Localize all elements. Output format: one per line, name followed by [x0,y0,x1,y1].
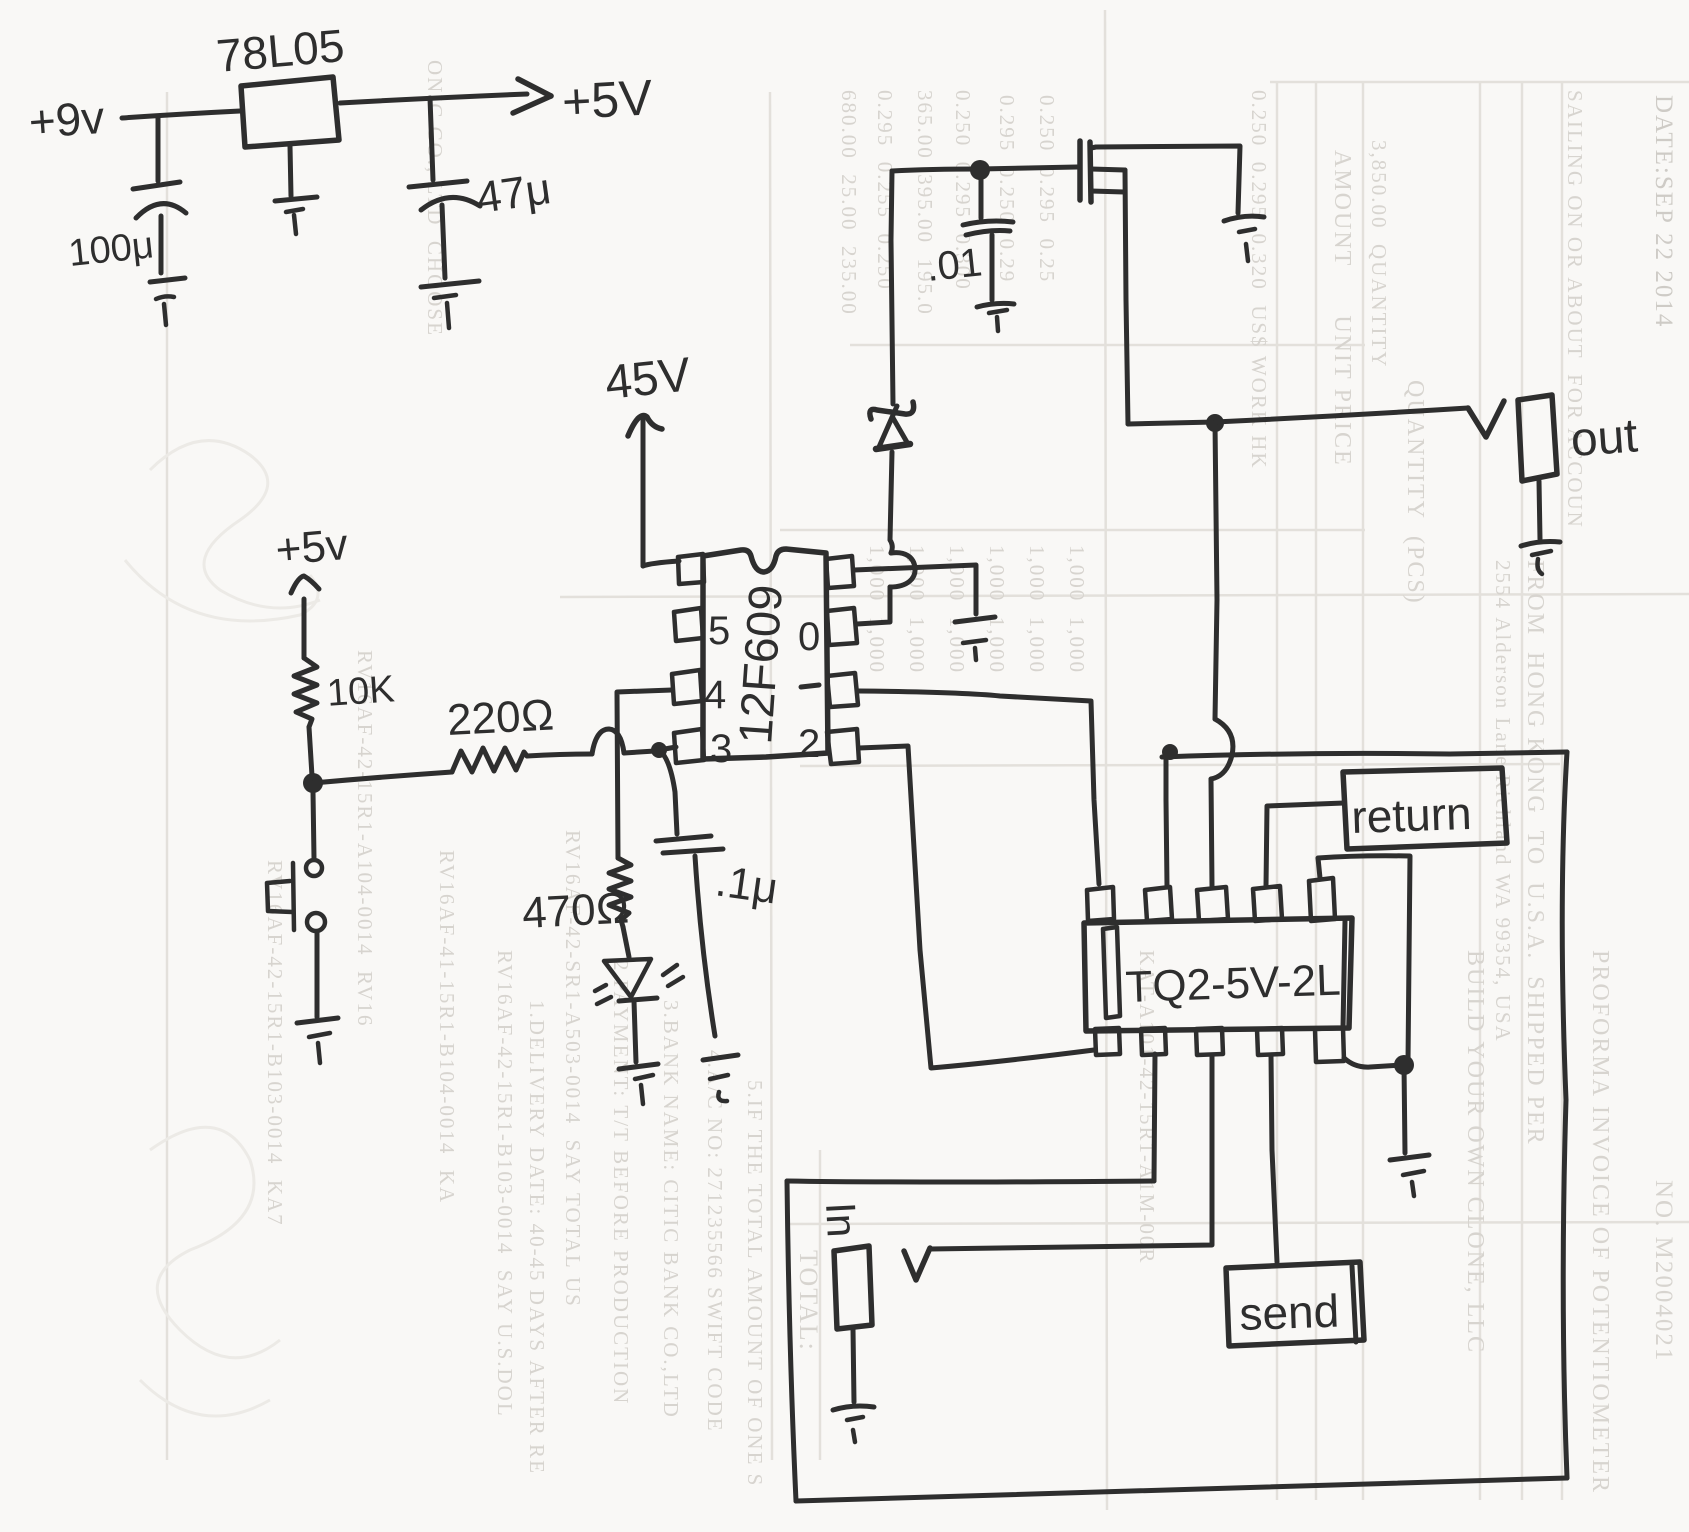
wire source down to out node [1128,422,1215,424]
wire regulator output to +5V [340,94,527,103]
pin VSS (top-right) [826,556,854,588]
svg-text:1,000 1,000: 1,000 1,000 [1025,545,1049,674]
svg-text:+5v: +5v [274,520,350,575]
resistor R1 10K [294,658,317,727]
ground [297,1018,338,1023]
ground [619,1064,658,1069]
svg-text:PROFORMA INVOICE OF POTENTIOME: PROFORMA INVOICE OF POTENTIOMETER [1587,950,1613,1494]
svg-text:+9v: +9v [27,91,106,148]
relay pin T3 [1197,887,1228,921]
svg-text:.1μ: .1μ [713,856,781,913]
wire contact rail to right side [1162,752,1567,757]
resistor R3 470 ohm [609,858,631,927]
polarity check mark [904,1248,930,1280]
svg-text:1,000 1,000: 1,000 1,000 [865,545,889,674]
svg-text:RV16AF-42-15R1-B103-0014 KA7: RV16AF-42-15R1-B103-0014 KA7 [263,860,287,1227]
svg-text:78L05: 78L05 [214,19,346,82]
ground [977,303,1014,307]
zener diode D1 [870,402,914,419]
relay pin B4 [1257,1028,1283,1055]
capacitor C2 47u [409,181,467,187]
svg-text:FROM HONG KONG TO U.S.A. S: FROM HONG KONG TO U.S.A. SHIPPED PER [1522,560,1548,1146]
wire 220R to hump [527,754,592,756]
pin 0 [827,608,857,645]
wire 47u tap [430,98,433,180]
wire LED to ground [634,1001,636,1062]
svg-text:AMOUNT UNIT PRICE: AMOUNT UNIT PRICE [1329,150,1355,467]
capacitor C1 100u [133,182,180,189]
svg-text:12F609: 12F609 [728,583,792,746]
wire connector to ground [1539,481,1540,539]
svg-text:0.295 0.250 0.29: 0.295 0.250 0.29 [995,95,1019,283]
connector J4 send [1226,1262,1364,1346]
svg-text:0: 0 [798,615,820,659]
svg-text:In: In [817,1201,866,1238]
enclosure left wire [787,1181,796,1501]
svg-text:470Ω: 470Ω [521,883,631,938]
LED D2 [604,959,651,997]
ground [421,281,479,287]
faint pencil loops (signature show-through) [125,441,320,1416]
ground [1224,216,1264,221]
node out junction [1206,414,1224,432]
wire relay B2 down [1154,1054,1155,1181]
svg-text:1.DELIVERY DATE: 40-45 DAYS AF: 1.DELIVERY DATE: 40-45 DAYS AFTER RE [525,1000,549,1475]
wire pin 4 to LED chain [617,690,672,858]
enclosure top wire to relay B2 [787,1181,1154,1182]
pin label 1 [801,685,819,687]
coil bar [1103,927,1120,1018]
relay pin T2 [1145,887,1172,921]
connector J2 return [1343,768,1507,849]
svg-text:4: 4 [704,673,726,717]
relay pin B5 [1315,1028,1344,1062]
wire out node to connector [1215,408,1468,422]
wire relay T4 to return [1266,803,1344,886]
node ground junction [1394,1055,1414,1075]
wire 470 to LED [623,927,629,957]
relay pin B1 [1095,1028,1120,1055]
pin 1 (right) [827,673,858,707]
svg-text:BUILD YOUR OWN CLONE, LLC: BUILD YOUR OWN CLONE, LLC [1462,950,1488,1354]
svg-text:return: return [1351,787,1473,843]
wire In connector to ground [853,1329,854,1402]
svg-text:4.A/C NO: 271235566 SWIFT CODE: 4.A/C NO: 271235566 SWIFT CODE [703,1050,727,1433]
wire relay B3 to In [930,1055,1212,1249]
svg-text:3,850.00 QUANTITY: 3,850.00 QUANTITY [1367,140,1391,368]
svg-text:TQ2-5V-2L: TQ2-5V-2L [1125,956,1342,1012]
wire right side down to enclosure [1562,752,1567,1478]
wire IC pin2 to relay pin B1 [859,746,1094,1068]
svg-text:TOTAL:: TOTAL: [794,1250,823,1352]
relay pin B2 [1141,1028,1166,1055]
svg-text:5.IF THE TOTAL AMOUNT OF ONE S: 5.IF THE TOTAL AMOUNT OF ONE S [743,1080,767,1487]
wire out node down to relay pin T3, hop over horizontal wire [1215,423,1217,719]
pin 4 [672,670,702,704]
capacitor C4 .01 [979,180,984,218]
svg-text:1,000 1,000: 1,000 1,000 [985,545,1009,674]
resistor R2 220 ohm [452,748,527,772]
wire relay B4 to send [1271,1055,1277,1262]
svg-text:out: out [1569,409,1639,467]
transistor Q1 (p-channel MOSFET) [1077,141,1083,200]
svg-text:1,000 1,000: 1,000 1,000 [905,545,929,674]
ground [1521,542,1560,547]
svg-text:680.00 25.00 235.00: 680.00 25.00 235.00 [837,90,861,316]
wire 10K to node [309,727,312,776]
svg-text:220Ω: 220Ω [446,690,556,745]
svg-text:2: 2 [798,722,820,766]
svg-text:0.250 0.295 0.320 US$ WORK: 0.250 0.295 0.320 US$ WORK HK [1247,90,1271,470]
svg-text:.01: .01 [924,240,984,290]
pin 2 [827,729,859,764]
node A junction [303,773,323,793]
svg-text:100μ: 100μ [67,224,156,275]
ground [703,1055,738,1060]
relay pin T1 [1087,887,1114,921]
ground [150,278,185,282]
wire junction to ground [1404,1065,1405,1153]
svg-text:send: send [1239,1285,1341,1340]
capacitor C3 .1u on pin 3 [659,750,677,834]
ground [833,1406,874,1410]
wire pin 0 to zener, hop over VSS wire [857,587,890,624]
svg-text:47μ: 47μ [474,164,554,223]
enclosure bottom wire [796,1478,1567,1501]
svg-text:3: 3 [710,727,732,771]
wire +9v to regulator [122,111,240,118]
svg-text:NO. M2004021: NO. M2004021 [1650,1180,1677,1362]
wire mosfet drain to ground [1096,146,1240,213]
pin 5 [674,608,703,641]
faint mirrored invoice text (reverse-side show-through), drawn as rotated runs [263,60,1677,1494]
pin 3 [674,729,704,763]
node +5V arrow [518,79,551,96]
node pin3 junction [651,742,667,758]
wire hop over pin-4 wire [592,729,624,754]
svg-text:0.250 0.295 0.25: 0.250 0.295 0.25 [1035,95,1059,283]
svg-text:3.BANK NAME: CITIC BANK CO.,LT: 3.BANK NAME: CITIC BANK CO.,LTD [659,1000,683,1419]
connector J1 out [1518,395,1557,481]
wire VSS pin to ground [854,565,976,614]
ground under 78L05 [290,146,291,196]
wire hump to pin3 node [624,751,655,753]
wire node to 220R [313,772,452,783]
relay pin B3 [1196,1028,1223,1055]
pin 1 (top-left) [678,554,704,584]
wire IC pin1 to relay pin T1 [858,691,1099,884]
ground [1390,1155,1429,1160]
regulator U1 78L05 [241,77,339,147]
connector J3 In [834,1246,872,1329]
svg-text:1,000 1,000: 1,000 1,000 [1065,545,1089,674]
wire arrow to IC pin1 [643,561,679,566]
wire relay T2 up to contact rail [1166,757,1167,886]
wire relay B5 to ground branch [1344,1058,1402,1067]
relay pin T5 [1309,878,1335,921]
svg-text:2.PAYMENT: T/T BEFORE PRODUCTI: 2.PAYMENT: T/T BEFORE PRODUCTION [609,960,633,1405]
relay pin T4 [1253,886,1282,921]
wire top rail to mosfet gate [892,167,1077,171]
wire node at 100u tap [156,117,161,181]
svg-text:+5V: +5V [561,69,655,130]
polarity check mark [1468,401,1504,437]
microcontroller U1 12F609 body [703,549,828,759]
node contact rail junction [1162,744,1178,760]
relay K1 body TQ2-5V-2L [1084,918,1352,1031]
svg-text:DATE:SEP 22 2014: DATE:SEP 22 2014 [1650,95,1677,328]
svg-text:10K: 10K [326,668,396,715]
switch S1 [313,792,314,858]
svg-text:RV16AF-41-15R1-B104-0014 KA: RV16AF-41-15R1-B104-0014 KA [435,850,459,1204]
node .01 junction [970,160,990,180]
ground [955,617,995,622]
svg-text:RV16AF-42-15R1-B103-0014 SAY: RV16AF-42-15R1-B103-0014 SAY U.S.DOL [493,950,517,1418]
wire zener to top rail [891,171,893,404]
svg-text:45V: 45V [603,348,693,410]
svg-text:5: 5 [708,609,730,653]
wire relay T5 over to ground branch [1318,856,1410,1062]
